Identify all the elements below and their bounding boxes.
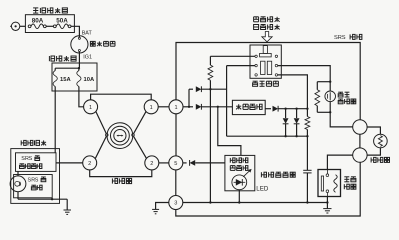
ground GND2	[152, 209, 159, 213]
main fuse box outline	[25, 15, 74, 33]
wire diagonal 1R-spring	[134, 112, 146, 134]
junction R3 bottom	[306, 135, 308, 137]
junction fuse box feed	[78, 67, 80, 69]
label 安全感知器	[338, 92, 356, 104]
junction energy line top3	[306, 108, 308, 110]
wire 15A fuse to warning light circuit	[54, 91, 56, 153]
wire capacitor to ground rail	[306, 173, 308, 203]
wire LED to ground rail	[238, 190, 240, 203]
label 50A	[56, 17, 68, 24]
fuse box outline	[52, 63, 97, 91]
svg-text:80A: 80A	[32, 17, 44, 24]
junction energy line top2	[295, 108, 297, 110]
wire R3 to capacitor	[306, 136, 308, 170]
wire squib pin1 left	[210, 55, 255, 57]
svg-text:50A: 50A	[56, 17, 68, 24]
fuse F2 50A	[53, 24, 71, 29]
junction safing bottom	[329, 111, 331, 113]
junction R1 ground	[209, 201, 211, 203]
wire squib pin2 right to safing sensor	[278, 66, 331, 82]
connector pin 2L	[83, 156, 97, 170]
label 點火開關	[90, 41, 115, 46]
label 儀錶板內	[21, 140, 46, 145]
junction D2-R1	[209, 88, 211, 90]
diode D6	[183, 160, 225, 166]
diode D4	[283, 109, 289, 137]
fuse F1 80A	[28, 24, 46, 29]
junction safing top	[329, 81, 331, 83]
fuse F3 15A	[53, 68, 57, 91]
label IG1	[83, 55, 92, 61]
wire panel to ground	[66, 199, 68, 210]
diode D1	[189, 104, 232, 110]
wire lamp bottom to panel ground	[17, 192, 19, 200]
svg-text:LED: LED	[256, 185, 269, 192]
wire lamp top	[17, 171, 19, 176]
inflator ring bottom	[353, 148, 367, 162]
wire safing to inflator ring	[330, 112, 353, 127]
resistor R2	[315, 82, 320, 113]
wire squib pin column 2	[226, 66, 228, 137]
junction boost input	[188, 106, 190, 108]
wire pin1 to pin5	[175, 114, 177, 156]
bolt symbol	[260, 46, 272, 57]
label SRS 警告燈電路	[20, 156, 42, 169]
svg-text:BAT: BAT	[82, 30, 93, 36]
svg-text:15A: 15A	[60, 77, 71, 83]
wire bypass top	[91, 94, 152, 100]
wire up branch	[188, 89, 190, 107]
wire main sensor to ground	[326, 197, 328, 209]
wire ring top to igniter	[367, 127, 380, 134]
bolt arrow	[262, 32, 272, 42]
wire diagonal 2R-spring	[134, 136, 147, 158]
svg-text:S: S	[29, 156, 33, 162]
safing sensor contact S1	[325, 82, 336, 113]
diode D5	[294, 109, 300, 137]
wire diagonal 2L-spring	[95, 136, 106, 158]
svg-text:2: 2	[88, 161, 91, 167]
connector pin 1L	[84, 100, 98, 114]
connector pin 2R	[145, 156, 159, 170]
label 氣囊總成	[254, 17, 280, 22]
label 80A	[32, 17, 44, 24]
svg-text:2: 2	[150, 161, 153, 167]
junction panel ground	[51, 198, 53, 200]
ignition switch SW1	[71, 36, 88, 53]
wire battery to main fuse box	[20, 25, 26, 27]
SRS warning lamp L1	[10, 176, 26, 192]
label 膨脹器	[371, 157, 390, 162]
label 升壓電路	[236, 104, 262, 109]
junction D4 bottom	[284, 135, 286, 137]
label BAT	[82, 30, 93, 36]
label SRS 警告燈	[28, 177, 46, 190]
wire squib pin2 left	[227, 65, 255, 67]
spring terminal left	[106, 134, 109, 137]
wire fuse bus bar	[55, 67, 79, 69]
squib igniter E1	[374, 134, 388, 148]
svg-text:S: S	[35, 177, 39, 183]
diode D3	[265, 106, 307, 112]
diode D2	[189, 86, 227, 92]
SRS pin 5	[169, 156, 183, 170]
fault detect box U2	[225, 155, 255, 190]
instrument panel box	[11, 149, 60, 204]
SRS warning light circuit box U3	[16, 153, 57, 172]
wire power rail	[176, 43, 360, 120]
svg-text:5: 5	[174, 161, 177, 167]
svg-text:1: 1	[150, 105, 153, 111]
junction D5 bottom	[295, 135, 297, 137]
junction energy line top1	[284, 108, 286, 110]
svg-text:1: 1	[174, 105, 177, 111]
connector pin 1R	[144, 100, 158, 114]
wire mid line	[227, 135, 308, 137]
resistor R1	[208, 56, 213, 89]
svg-text:S: S	[342, 35, 346, 41]
wire ring bottom to main sensor	[327, 155, 352, 169]
label 固定螺絲	[254, 25, 280, 30]
label 故障檢出電路	[230, 158, 248, 171]
wire pin 1R to SRS pin 1	[158, 106, 169, 108]
ground GND1	[64, 210, 72, 214]
wire 10A fuse to connector pin 1L	[79, 91, 84, 107]
label 15A	[60, 77, 71, 83]
wire R1 to ground rail	[209, 89, 211, 202]
boost circuit box U1	[232, 100, 265, 114]
main sensor coil	[334, 175, 337, 193]
label SRS 機構	[334, 34, 362, 41]
svg-text:10A: 10A	[84, 77, 95, 83]
wire pin3 bottom loop	[176, 162, 360, 216]
spring terminal right	[132, 134, 135, 137]
squib pins left	[255, 55, 257, 76]
safing sensor top bar	[317, 81, 330, 83]
label 主感知器	[344, 177, 356, 189]
wire igniter to ring bottom	[367, 148, 380, 155]
label main fuse box 主保險絲盒	[33, 8, 67, 13]
junction main sensor ground	[326, 201, 328, 203]
label 輔助電容器	[261, 172, 295, 177]
clock spring spiral	[107, 123, 133, 149]
junction LED ground	[238, 201, 240, 203]
wire diagonal 1L-spring	[96, 112, 106, 134]
wire between fuses	[46, 25, 53, 27]
safing sensor bottom bar	[317, 111, 330, 113]
wire pin5 to pin3	[175, 170, 177, 196]
wire fault detect input	[218, 107, 241, 156]
wire fuse box to ignition switch	[71, 26, 79, 37]
resistor R3	[305, 109, 310, 137]
squib connector box 安全閘門	[250, 45, 281, 78]
fuse F4 10A	[77, 68, 81, 91]
squib contact bars	[261, 61, 272, 74]
wire rings link	[359, 134, 361, 148]
wire pin 2R to SRS pin 5	[159, 162, 169, 164]
svg-text:3: 3	[174, 201, 177, 207]
wire pin3 to ground	[156, 203, 169, 210]
label 保險絲盒	[49, 56, 76, 61]
ground GND3	[323, 209, 331, 213]
main sensor contact	[321, 170, 328, 197]
junction capacitor ground	[306, 201, 308, 203]
LED1	[232, 169, 252, 190]
squib pins right	[275, 55, 277, 76]
inflator ring top	[353, 120, 367, 134]
label 連接器	[112, 178, 131, 183]
wire pin1 to junction	[183, 106, 189, 108]
battery B1	[10, 22, 20, 30]
wire ignition switch to fuse box	[78, 52, 80, 69]
wire warning circuit to pin 2L	[56, 162, 83, 164]
label 安全閘門	[253, 81, 279, 86]
wire squib pin3 right to energy line	[278, 75, 308, 109]
SRS pin 1	[169, 100, 183, 114]
main sensor box S2	[318, 170, 341, 197]
warning lamp enclosure box	[14, 175, 53, 198]
wire panel ground line	[18, 198, 67, 200]
label 10A	[84, 77, 95, 83]
svg-text:IG1: IG1	[83, 55, 92, 61]
label LED	[256, 185, 269, 192]
SRS pin 3	[169, 196, 183, 210]
wire ground rail	[183, 202, 328, 204]
svg-text:1: 1	[89, 105, 92, 111]
wire connector bracket	[90, 170, 152, 177]
junction fault detect tap	[217, 106, 219, 108]
capacitor C1 輔助電容器	[303, 170, 311, 173]
